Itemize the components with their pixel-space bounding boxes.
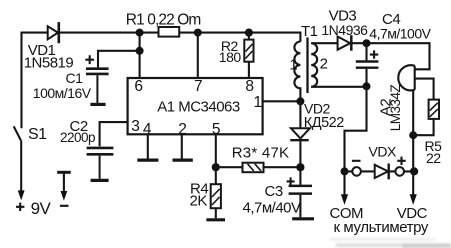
label C4 plus [370,50,378,58]
wire: pin 4 to ground [147,134,149,158]
ground bar under C1 [90,103,105,106]
diode VDX with test terminals [345,164,415,180]
resistor R4 [211,167,221,218]
node: junction rail / pin6 branch [136,29,144,37]
svg-text:22: 22 [426,150,441,166]
VDC arrowhead [410,194,417,205]
wire: rail R1 right to transformer primary top [179,33,300,42]
svg-text:1N4936: 1N4936 [321,22,368,38]
capacitor C1 [86,69,109,103]
node: VD2 / R3 right / C3 [296,163,304,171]
svg-text:180: 180 [219,49,242,65]
wire: +9V input rail top-left corner to VD1 anode [22,32,48,129]
+9V arrowhead [18,190,25,200]
transistor A2 LM334Z body [398,65,414,90]
svg-text:C1: C1 [66,70,84,86]
node: junction rail / R2 branch [245,28,253,36]
svg-text:4,7м/40V: 4,7м/40V [243,200,302,217]
resistor R1 [159,27,180,37]
diode VD3 [338,35,352,51]
diode VD1 [48,22,59,43]
resistor R2 [244,33,253,78]
label battery minus [60,205,69,207]
svg-text:8: 8 [245,78,253,95]
svg-text:9V: 9V [31,199,52,218]
svg-text:2: 2 [320,56,328,73]
wire: pin 1 to transformer primary bottom / VD2 [263,100,301,102]
svg-text:1N5819: 1N5819 [24,54,74,71]
minus arrowhead [61,191,68,201]
svg-text:R1 0,22 Om: R1 0,22 Om [126,11,201,28]
transformer T1 secondary winding [311,43,317,87]
capacitor C2 [87,148,114,179]
ground bar under C2 [91,179,109,182]
switch S1 [14,126,21,140]
capacitor C4 [356,43,379,86]
node: junction C1 branch / pin6 line [136,47,144,55]
svg-text:КД522: КД522 [304,115,344,131]
scan smudge bottom right [330,238,451,248]
node: COM / VDX left [341,167,349,175]
svg-text:S1: S1 [28,126,47,143]
label VDX plus [397,157,405,165]
resistor R5 [413,100,439,136]
wire: branch to C1 [98,51,140,68]
ground bar pin 2 [173,159,193,162]
node: junction rail / pin7 branch [194,29,202,37]
svg-text:2K: 2K [190,193,208,210]
diode VD2 [290,101,310,167]
transformer T1 core [306,38,308,94]
label C1 plus [85,55,94,64]
wire: secondary bottom to C4 minus node [311,86,366,88]
wire: COM jog down to COM terminal [345,86,367,196]
label battery plus [16,203,24,211]
ground bar pin 4 [137,159,158,162]
wire: secondary top to VD3 [311,42,337,44]
svg-text:VDX: VDX [369,144,397,160]
svg-text:C3: C3 [265,183,283,200]
wire: rail VD1 cathode to R1 left [60,32,159,34]
label VDX minus [352,160,361,162]
svg-text:3: 3 [131,118,139,135]
wire: pin 6 branch down to IC [139,33,141,78]
node: VD3 / C4 plus [363,39,371,47]
ground bar battery minus [57,171,70,174]
capacitor C3 [289,167,312,217]
svg-text:7: 7 [194,78,202,95]
op-amp U1 : IC A1 MC34063 body [128,78,263,134]
node: A2 bottom / R5 bottom [409,131,417,139]
node: pin1 / primary bottom / VD2 [296,97,304,105]
wire: minus stub [63,172,65,192]
wire: pin 5 down to R3/R4 node [215,134,217,167]
label C3 plus [287,177,295,185]
resistor R3 [216,163,301,173]
COM arrowhead [341,194,348,205]
wire: pin 2 to ground [181,134,183,158]
svg-text:4,7м/100V: 4,7м/100V [369,25,431,41]
transformer T1 primary winding [294,42,300,102]
svg-text:1: 1 [254,94,262,111]
svg-text:T1: T1 [301,23,318,40]
wire: S1 to +9V terminal [20,141,22,192]
node: pin5 / R3 left / R4 top [212,163,220,171]
node: VDC / VDX right [410,167,418,175]
svg-text:к мультиметру: к мультиметру [334,219,429,236]
ground bar under C3 [292,217,314,220]
ground bar under R4 [206,218,225,221]
svg-text:1: 1 [289,56,297,73]
wire: pin 3 to C2 [100,122,128,146]
wire: pin 7 branch down to IC [197,33,199,78]
wire: VD3 cathode to C4 top node, on to A2 top pin [352,43,429,69]
node: secondary bottom / C4 minus / COM branch [363,82,371,90]
svg-text:R3* 47K: R3* 47K [232,145,290,162]
wire: A2 emitter / VDC line down to VDC terminal [412,89,414,196]
svg-text:2200p: 2200p [60,130,95,145]
wire: A2 middle pin to R5 [415,79,434,100]
svg-text:100м/16V: 100м/16V [33,85,92,101]
svg-text:A1 MC34063: A1 MC34063 [157,98,240,115]
svg-text:LM334Z: LM334Z [388,84,403,131]
svg-text:6: 6 [134,78,142,95]
